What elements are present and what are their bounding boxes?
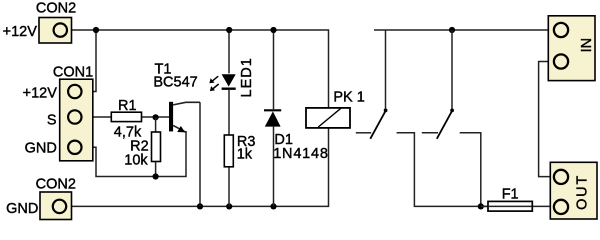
- wire switch2 fixed contact drop: [451, 30, 453, 110]
- node junction D1/rail: [270, 203, 276, 209]
- svg-text:+12V: +12V: [23, 85, 58, 101]
- svg-text:IN: IN: [579, 38, 595, 53]
- node junction at 96,30: [93, 27, 99, 33]
- connector CON2 bottom pin circle: [53, 200, 66, 213]
- wire top rail A from CON2 to relay: [68, 30, 329, 108]
- svg-text:10k: 10k: [124, 152, 148, 168]
- svg-text:GND: GND: [6, 201, 38, 217]
- connector CON2 top box: [39, 18, 72, 44]
- wire R2 top lead: [155, 117, 157, 132]
- node junction at 229,30: [226, 27, 232, 33]
- connector CON1 pin2 circle: [68, 110, 81, 123]
- LED LED1 triangle: [222, 74, 236, 86]
- connector OUT pin2 circle: [554, 200, 568, 214]
- svg-text:CON2: CON2: [36, 1, 76, 17]
- transistor Q1 collector lead: [173, 102, 200, 105]
- relay PK1 diagonal: [318, 108, 341, 127]
- wire collector down: [199, 102, 201, 206]
- transistor Q1 emitter arrow: [177, 126, 185, 132]
- switch S1 blade: [370, 110, 386, 138]
- wire R1 to base of T1: [142, 116, 171, 118]
- connector OUT pin1 circle: [554, 170, 568, 184]
- node junction collector/rail: [197, 203, 203, 209]
- transistor Q1 emitter lead: [173, 125, 186, 132]
- connector IN pin1 circle: [554, 23, 568, 37]
- svg-text:1N4148: 1N4148: [273, 146, 329, 162]
- svg-text:OUT: OUT: [574, 174, 590, 210]
- svg-text:BC547: BC547: [153, 74, 197, 90]
- node junction at 274,30: [270, 27, 276, 33]
- connector CON2 top pin circle: [54, 23, 67, 36]
- wire R2 bottom lead: [155, 162, 157, 177]
- fuse F1 center line: [488, 205, 533, 207]
- wire R3 to rail: [228, 167, 230, 207]
- wire switch1 left stub: [356, 132, 371, 134]
- wire switch2 output down: [460, 133, 481, 207]
- fuse F1: [488, 201, 532, 211]
- svg-text:GND: GND: [25, 141, 57, 157]
- LED LED1 cathode bar: [222, 87, 236, 89]
- connector CON1 box: [60, 79, 93, 161]
- node junction R2 bottom: [153, 173, 159, 179]
- wire CON1 GND to emitter rail: [82, 131, 186, 177]
- svg-text:R1: R1: [118, 98, 137, 114]
- wire switch1 fixed contact drop: [385, 30, 387, 110]
- diode D1 triangle: [265, 111, 281, 126]
- transistor Q1 base bar: [169, 102, 173, 132]
- svg-text:S: S: [47, 112, 57, 128]
- svg-text:LED1: LED1: [239, 57, 255, 97]
- resistor R1: [111, 112, 141, 121]
- connector CON1 pin1 circle: [68, 85, 81, 98]
- wire LED to R3: [228, 90, 230, 135]
- LED LED1 arrow 1: [209, 76, 218, 83]
- relay PK1 coil box: [306, 108, 350, 128]
- svg-text:PK 1: PK 1: [333, 89, 364, 105]
- node junction switch2: [449, 27, 455, 33]
- wire drop to D1: [273, 30, 275, 109]
- resistor R3: [224, 135, 233, 167]
- LED LED1 arrow 2: [210, 84, 219, 91]
- node junction R3/rail: [226, 203, 232, 209]
- diode D1 cathode bar: [264, 109, 281, 111]
- connector CON1 pin3 circle: [68, 141, 81, 154]
- svg-text:CON1: CON1: [53, 65, 93, 81]
- wire bottom rail B from CON2 to relay bottom: [67, 128, 328, 206]
- connector CON2 bottom box: [40, 192, 72, 220]
- wire drop to CON1 +12V: [82, 30, 96, 92]
- svg-text:F1: F1: [502, 186, 519, 202]
- wire D1 anode to rail: [273, 127, 275, 207]
- node junction fuse rail: [478, 203, 484, 209]
- node junction base/R2: [153, 114, 159, 120]
- node switch2 contact dot: [450, 109, 454, 113]
- wire switch1 output down to fuse rail: [397, 133, 488, 207]
- svg-text:1k: 1k: [237, 146, 253, 162]
- wire CON1 S to R1: [82, 116, 111, 118]
- resistor R2: [152, 132, 161, 162]
- wire IN pin2 to OUT pin1: [539, 62, 553, 177]
- connector OUT box: [550, 162, 597, 219]
- wire top rail C switches to IN: [374, 29, 553, 31]
- svg-text:CON2: CON2: [36, 177, 76, 193]
- connector IN box: [548, 16, 595, 81]
- wire drop to LED1: [228, 30, 230, 73]
- connector IN pin2 circle: [554, 54, 568, 68]
- wire switch2 left stub: [422, 132, 438, 134]
- wire through fuse to OUT: [481, 205, 553, 207]
- node switch1 contact dot: [384, 109, 388, 113]
- svg-text:+12V: +12V: [3, 24, 38, 40]
- switch S2 blade: [437, 110, 453, 138]
